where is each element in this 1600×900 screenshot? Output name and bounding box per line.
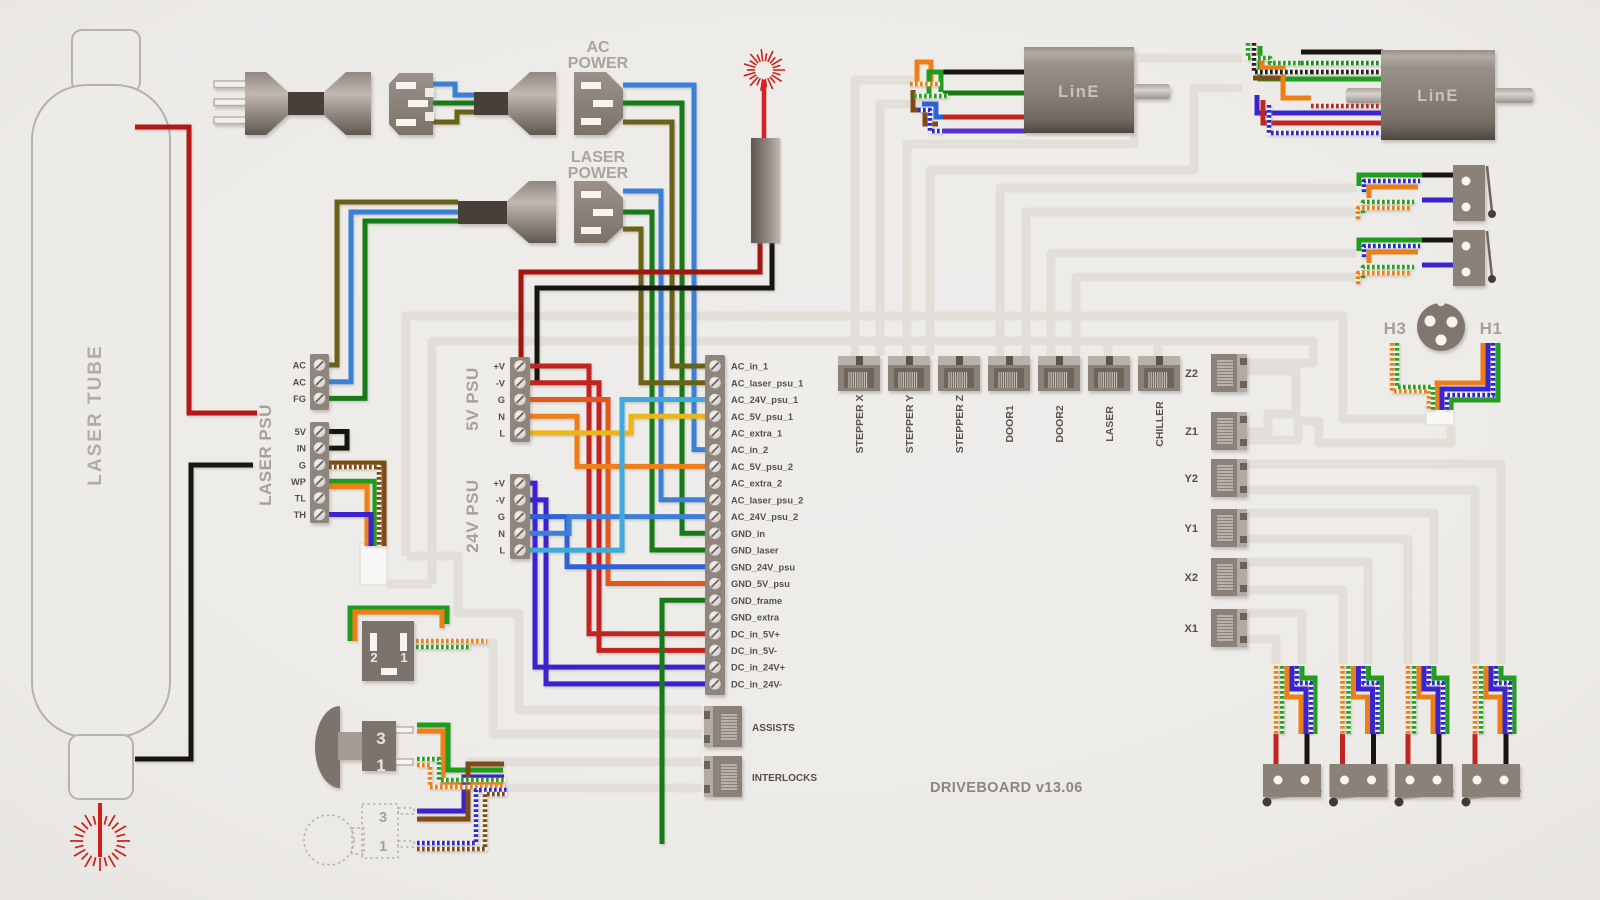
svg-text:POWER: POWER xyxy=(568,165,629,182)
svg-text:AC_laser_psu_1: AC_laser_psu_1 xyxy=(731,378,803,388)
svg-text:STEPPER Y: STEPPER Y xyxy=(904,395,916,454)
svg-text:24V PSU: 24V PSU xyxy=(463,479,482,552)
svg-text:5V: 5V xyxy=(295,427,307,437)
svg-text:2: 2 xyxy=(370,650,377,665)
svg-text:STEPPER Z: STEPPER Z xyxy=(954,394,966,453)
svg-text:AC_in_2: AC_in_2 xyxy=(731,445,768,455)
svg-text:N: N xyxy=(498,529,505,539)
svg-text:LASER PSU: LASER PSU xyxy=(256,404,275,506)
svg-text:H3: H3 xyxy=(1384,319,1407,338)
svg-text:DC_in_5V+: DC_in_5V+ xyxy=(731,629,780,639)
svg-text:POWER: POWER xyxy=(568,55,629,72)
svg-text:AC_5V_psu_1: AC_5V_psu_1 xyxy=(731,412,793,422)
svg-text:AC: AC xyxy=(586,39,610,56)
svg-text:H1: H1 xyxy=(1480,319,1503,338)
svg-text:N: N xyxy=(498,412,505,422)
svg-text:AC_in_1: AC_in_1 xyxy=(731,362,768,372)
svg-text:L: L xyxy=(499,546,505,556)
svg-text:CHILLER: CHILLER xyxy=(1154,401,1166,447)
svg-text:DOOR1: DOOR1 xyxy=(1004,405,1016,443)
svg-text:AC_24V_psu_2: AC_24V_psu_2 xyxy=(731,512,798,522)
svg-text:WP: WP xyxy=(291,477,306,487)
svg-text:3: 3 xyxy=(376,729,385,748)
svg-text:LASER: LASER xyxy=(571,149,626,166)
svg-text:+V: +V xyxy=(493,479,505,489)
svg-text:-V: -V xyxy=(496,378,506,388)
svg-text:AC_24V_psu_1: AC_24V_psu_1 xyxy=(731,395,798,405)
svg-text:G: G xyxy=(498,395,505,405)
svg-text:DRIVEBOARD v13.06: DRIVEBOARD v13.06 xyxy=(930,780,1083,796)
svg-text:FG: FG xyxy=(293,394,306,404)
svg-text:G: G xyxy=(299,460,306,470)
svg-text:IN: IN xyxy=(297,444,307,454)
svg-text:STEPPER X: STEPPER X xyxy=(854,395,866,454)
svg-text:1: 1 xyxy=(376,756,385,775)
svg-text:DC_in_24V+: DC_in_24V+ xyxy=(731,663,786,673)
svg-text:INTERLOCKS: INTERLOCKS xyxy=(752,773,817,784)
svg-text:LASER: LASER xyxy=(1104,406,1116,442)
svg-text:-V: -V xyxy=(496,496,506,506)
svg-text:DC_in_24V-: DC_in_24V- xyxy=(731,680,782,690)
svg-text:ASSISTS: ASSISTS xyxy=(752,723,795,734)
svg-text:TH: TH xyxy=(294,510,307,520)
svg-text:Z1: Z1 xyxy=(1185,426,1198,438)
svg-text:Y1: Y1 xyxy=(1185,523,1198,535)
svg-text:GND_laser: GND_laser xyxy=(731,546,779,556)
svg-text:GND_in: GND_in xyxy=(731,529,765,539)
svg-text:LinE: LinE xyxy=(1058,83,1100,101)
svg-text:1: 1 xyxy=(400,650,407,665)
svg-text:X1: X1 xyxy=(1185,623,1198,635)
svg-text:Z2: Z2 xyxy=(1185,368,1198,380)
svg-text:5V PSU: 5V PSU xyxy=(463,367,482,430)
svg-text:1: 1 xyxy=(379,838,387,855)
svg-text:TL: TL xyxy=(295,494,307,504)
svg-text:AC_extra_1: AC_extra_1 xyxy=(731,429,782,439)
svg-text:AC_5V_psu_2: AC_5V_psu_2 xyxy=(731,462,793,472)
svg-text:DC_in_5V-: DC_in_5V- xyxy=(731,646,777,656)
svg-text:AC: AC xyxy=(293,361,307,371)
svg-text:DOOR2: DOOR2 xyxy=(1054,405,1066,443)
svg-text:AC: AC xyxy=(293,377,307,387)
svg-text:G: G xyxy=(498,512,505,522)
svg-text:GND_extra: GND_extra xyxy=(731,613,780,623)
svg-text:LinE: LinE xyxy=(1417,87,1459,105)
svg-text:+V: +V xyxy=(493,362,505,372)
svg-text:GND_5V_psu: GND_5V_psu xyxy=(731,579,790,589)
svg-text:LASER TUBE: LASER TUBE xyxy=(85,344,106,485)
svg-text:GND_frame: GND_frame xyxy=(731,596,782,606)
svg-text:Y2: Y2 xyxy=(1185,473,1198,485)
svg-text:GND_24V_psu: GND_24V_psu xyxy=(731,562,795,572)
svg-text:L: L xyxy=(499,429,505,439)
svg-text:AC_laser_psu_2: AC_laser_psu_2 xyxy=(731,495,803,505)
svg-text:X2: X2 xyxy=(1185,572,1198,584)
svg-text:3: 3 xyxy=(379,809,387,826)
svg-text:AC_extra_2: AC_extra_2 xyxy=(731,479,782,489)
